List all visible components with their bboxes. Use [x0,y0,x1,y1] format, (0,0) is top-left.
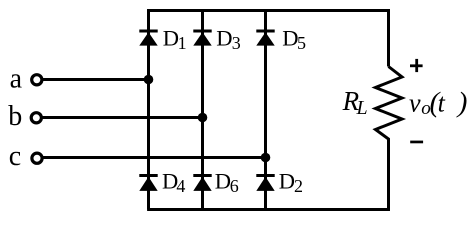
svg-text:L: L [356,97,368,119]
svg-text:D: D [215,169,231,194]
svg-text:v: v [409,89,421,118]
svg-text:5: 5 [297,33,306,53]
svg-text:3: 3 [232,33,241,53]
svg-text:c: c [9,141,21,172]
svg-text:6: 6 [230,176,239,196]
svg-text:4: 4 [176,176,185,196]
svg-text:1: 1 [178,33,187,53]
svg-text:2: 2 [294,176,303,196]
svg-text:D: D [279,169,295,194]
svg-text:D: D [282,26,298,51]
svg-text:b: b [8,101,22,132]
svg-text:D: D [216,26,232,51]
svg-text:a: a [10,64,23,95]
svg-text:t: t [438,89,446,118]
svg-text:): ) [456,87,468,119]
